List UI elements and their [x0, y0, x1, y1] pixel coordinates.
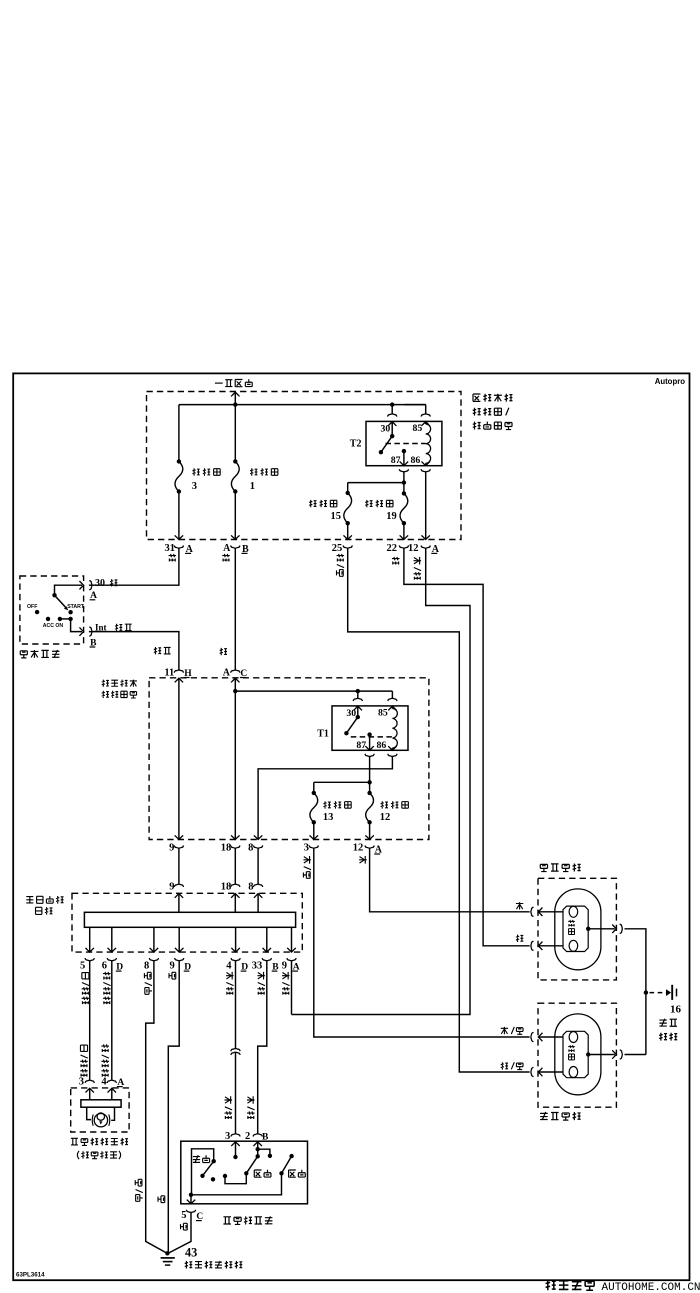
- wire label 白/玫红 lower: [80, 1045, 87, 1051]
- svg-text:5: 5: [181, 1210, 186, 1221]
- wire label 灰/红 lower: [247, 1096, 255, 1104]
- wire label 灰/黑 at left headlight: [501, 1027, 508, 1034]
- dimmer spare contact: [211, 1177, 215, 1181]
- cup terminal 9: [174, 846, 183, 849]
- svg-text:1: 1: [250, 481, 255, 492]
- svg-text:30: 30: [95, 578, 105, 589]
- svg-text:12: 12: [380, 812, 391, 823]
- svg-text:16: 16: [670, 1004, 682, 1016]
- wire low beam U-link: [225, 1173, 246, 1183]
- pin arrow T1 85: [388, 706, 397, 710]
- wire to fuse 1: [234, 405, 236, 462]
- wire bus bar to exit: [89, 927, 91, 952]
- wire fuse13 to terminal 3: [313, 822, 315, 839]
- svg-text:A: A: [223, 543, 231, 554]
- pin arrow terminal 31: [175, 535, 184, 539]
- wire label 绿 (22): [392, 557, 400, 565]
- low beam upper contact: [256, 1154, 260, 1158]
- wire entry2 to low filament: [538, 945, 563, 947]
- pin arrow bus exit: [231, 948, 240, 952]
- fuse 保险丝19: [400, 493, 408, 523]
- svg-text:25: 25: [332, 543, 343, 554]
- wire junction to fuse15: [348, 482, 404, 484]
- U-link contact dot: [223, 1174, 227, 1178]
- ignition lever with arrowhead: [55, 595, 67, 608]
- svg-text:87: 87: [356, 740, 366, 751]
- wire deep blue through box 11H to 9: [178, 678, 180, 839]
- svg-text:9: 9: [282, 961, 287, 972]
- svg-text:T2: T2: [350, 438, 362, 449]
- svg-text:86: 86: [377, 740, 387, 751]
- wire down to fuse15: [347, 483, 349, 493]
- wire red AB down to instrument box A: [234, 548, 236, 670]
- node: battery feed 一直通电: [215, 382, 223, 384]
- wire 灰/黑 terminal 3 to left headlight entry1: [314, 848, 530, 1037]
- wire T1 87 down: [369, 757, 371, 783]
- label 仪表板下: [102, 680, 109, 687]
- svg-text:30: 30: [381, 423, 391, 434]
- cup T1 pin30: [353, 698, 362, 701]
- instrument panel fuse box 仪表板下保险丝盒 (dashed): [149, 678, 429, 840]
- label 发动机舱保险丝/继电器盒: [473, 394, 480, 401]
- cup terminal 31A: [174, 546, 183, 549]
- wire fuse3 to terminal 31: [178, 492, 180, 540]
- svg-text:9: 9: [170, 961, 175, 972]
- svg-text:12: 12: [353, 843, 364, 854]
- pin arrow bus entry 8: [254, 894, 263, 898]
- pin arrow terminal 8 exit: [254, 835, 263, 839]
- low beam lever 近光: [246, 1156, 257, 1173]
- pin arrow A-C entry: [231, 678, 240, 682]
- cup left headlight entry1: [531, 1032, 534, 1041]
- page frame border: [13, 373, 689, 1280]
- pin arrow 11H entry: [175, 678, 184, 682]
- T2 switch contact: [379, 450, 383, 454]
- wire bus bar to exit: [291, 927, 293, 952]
- cup left headlight entry2: [531, 1067, 534, 1076]
- wire label 黑 (5C): [181, 1223, 188, 1230]
- pin arrow bus exit: [85, 948, 94, 952]
- cup terminal 18: [231, 846, 240, 849]
- cup bus exit: [85, 958, 94, 961]
- cup T2 86: [421, 469, 430, 472]
- label 前照灯指示灯: [71, 1138, 78, 1145]
- cup terminal 11H: [174, 670, 183, 673]
- svg-text:ON: ON: [55, 623, 63, 629]
- position dot ON: [58, 617, 62, 621]
- wire bus bar to exit: [178, 927, 180, 952]
- headlight indicator box (dashed): [71, 1088, 129, 1132]
- junction A-C to relay feed: [233, 689, 237, 693]
- pin arrow T1 86 exit: [388, 746, 397, 750]
- headlight switch box 前照灯开关: [181, 1141, 308, 1204]
- wire label 深蓝: [115, 624, 122, 631]
- wire 18 to body computer bus: [234, 848, 236, 884]
- wire right headlight ground to junction: [625, 929, 646, 1055]
- wire 绿/黑 from 25 to left headlight low beam: [348, 548, 530, 1072]
- label 变光: [193, 1155, 200, 1163]
- T2 pin87 contact dot: [402, 449, 406, 453]
- cup T2 pin30: [388, 414, 397, 417]
- T2 switch pivot: [390, 434, 394, 438]
- svg-text:85: 85: [413, 423, 423, 434]
- svg-text:4: 4: [101, 1077, 107, 1088]
- indicator lamp bulb: [92, 1114, 93, 1125]
- T1 pin87 contact dot: [367, 732, 371, 736]
- cup bus entry 9: [174, 884, 183, 887]
- label 左前照灯: [540, 1112, 548, 1120]
- svg-text:8: 8: [248, 843, 253, 854]
- label 点火开关: [20, 651, 27, 658]
- junction T1 pin30 branch: [356, 689, 360, 693]
- svg-text:8: 8: [248, 881, 253, 892]
- wire 灰/红 9A down to junction with 12A feed: [291, 961, 293, 1015]
- wire bus corner to T2 pin85: [425, 405, 427, 414]
- wire label 绿/黑 (25): [337, 554, 345, 562]
- pin arrow terminal 22: [400, 535, 409, 539]
- svg-text:30: 30: [346, 708, 356, 719]
- svg-text:3: 3: [192, 481, 197, 492]
- svg-text:9: 9: [169, 843, 174, 854]
- svg-text:31: 31: [165, 543, 176, 554]
- svg-text:9: 9: [169, 881, 174, 892]
- svg-text:11: 11: [164, 668, 174, 679]
- junction 87 to fuses 13/12: [367, 780, 371, 784]
- T1 switch contact: [344, 731, 348, 735]
- svg-text:START: START: [67, 604, 85, 610]
- cup bus exit: [175, 958, 184, 961]
- wire to T1 pin85: [391, 691, 393, 698]
- cup bus exit: [149, 958, 158, 961]
- cup T1 pin85: [388, 698, 397, 701]
- svg-text:AUTOHOME.COM.CN: AUTOHOME.COM.CN: [602, 1282, 700, 1293]
- wire red 31A to ignition switch 30: [89, 548, 179, 585]
- wire 深蓝 Int to instrument 11H: [89, 632, 179, 670]
- label 保险丝盒: [102, 691, 109, 698]
- wire label 灰/红 (12A): [414, 557, 422, 565]
- wire 棕/玫红 6D to indicator 4A: [111, 961, 113, 1080]
- wire feed to T1 30/85: [235, 690, 392, 692]
- pin arrow T1 87 exit: [365, 746, 374, 750]
- fuse 保险丝12: [366, 793, 374, 822]
- wire label 灰/红 (33B): [257, 972, 265, 980]
- wire ON to Int contact: [60, 618, 71, 620]
- cup indicator 4A: [107, 1080, 116, 1083]
- svg-text:43: 43: [185, 1245, 197, 1259]
- pin arrow indicator 4A: [108, 1088, 117, 1092]
- wire T1 pin87 to box edge: [369, 735, 371, 751]
- ignition contact Int: [68, 617, 72, 621]
- wire label 灰/红 (9A): [282, 972, 290, 980]
- cup T1 87: [365, 754, 374, 757]
- cup T2 pin85: [421, 414, 430, 417]
- svg-text:3: 3: [79, 1077, 84, 1088]
- label 远光: [289, 1170, 296, 1177]
- watermark 汽车之家: [546, 1280, 556, 1290]
- wire label 白/玫红: [82, 973, 89, 979]
- svg-text:15: 15: [331, 511, 342, 522]
- wire 黑 9D to ground: [168, 961, 179, 1252]
- pin arrow right headlight entry2: [538, 942, 542, 951]
- cup right headlight exit: [620, 924, 623, 933]
- wire bus bar to exit: [111, 927, 113, 952]
- cup terminal 12: [365, 846, 374, 849]
- cup bus entry 18: [231, 884, 240, 887]
- cup T1 86: [388, 754, 397, 757]
- right headlight bulb 灯丝: [555, 889, 601, 970]
- wire bulb common to box edge: [588, 928, 615, 930]
- svg-text:8: 8: [144, 961, 149, 972]
- wire label 棕/玫红 lower: [101, 1044, 109, 1052]
- switch 3 contact: [233, 1155, 237, 1159]
- wire 灰/红 4D upper: [235, 961, 237, 1048]
- fuse 保险丝1: [231, 461, 239, 491]
- wire 灰/红 from 12A down and left to bus 9A wire: [292, 548, 471, 1014]
- svg-text:12: 12: [408, 543, 419, 554]
- pin arrow bus exit: [175, 948, 184, 952]
- svg-text:87: 87: [391, 455, 401, 466]
- wire label 红 at A-C: [220, 648, 227, 655]
- svg-text:3: 3: [225, 1131, 230, 1142]
- wire T2 86 to terminal 12: [425, 472, 427, 540]
- pin arrow terminal 12: [421, 535, 430, 539]
- wire label 黑: [169, 972, 176, 979]
- wire 白/玫红 5 to indicator 3: [89, 961, 91, 1080]
- wire 8 to body computer bus: [257, 848, 259, 884]
- wire dimmer L-link to ground rail: [192, 1149, 214, 1195]
- pin arrow terminal 9 exit: [175, 835, 184, 839]
- wire 黑/紫 8 to ground: [146, 961, 167, 1253]
- cup bus entry 8: [253, 884, 262, 887]
- wire high beam to ground rail: [191, 1173, 282, 1195]
- pin arrow switch 3: [231, 1142, 240, 1146]
- junction bus/relay 30: [390, 402, 394, 406]
- wire bus bar to exit: [235, 927, 237, 952]
- wire label 灰/红 (4D): [226, 972, 234, 980]
- cup terminal 25: [343, 546, 352, 549]
- cup indicator 3: [85, 1080, 94, 1083]
- fuse 保险丝13: [310, 793, 318, 822]
- spare contact dot: [268, 1154, 272, 1158]
- pin arrow left headlight exit: [612, 1050, 616, 1059]
- junction 2B branch: [256, 1147, 260, 1151]
- ground junction dot: [165, 1251, 169, 1255]
- wire down to fuse13: [313, 782, 315, 793]
- wire label 黑/紫 lower: [135, 1179, 142, 1186]
- wire left bulb common to box edge: [588, 1054, 615, 1056]
- wire 灰/绿 4D lower to switch 3: [235, 1053, 237, 1134]
- right headlight box 右前照灯 (dashed): [538, 878, 616, 980]
- wire fuse19 to terminal 22: [403, 523, 405, 539]
- svg-text:22: 22: [387, 543, 398, 554]
- wire label 红: [110, 579, 117, 586]
- relay T2 coil: [426, 424, 431, 463]
- cup bus exit: [231, 958, 240, 961]
- pin arrow indicator 3: [85, 1088, 94, 1092]
- svg-text:85: 85: [378, 708, 388, 719]
- wire bus bar to exit: [266, 927, 268, 952]
- wire bus to T2 pin30: [391, 405, 393, 414]
- svg-text:Autopro: Autopro: [655, 377, 686, 386]
- dimmer lower contact: [200, 1174, 204, 1178]
- pin arrow T2 86 exit: [421, 462, 430, 466]
- cup bus exit: [107, 958, 116, 961]
- T1 switch pivot: [356, 715, 360, 719]
- wire bar to lamp right: [111, 1107, 114, 1120]
- high beam lower contact: [279, 1171, 283, 1175]
- cup terminal 22: [399, 546, 408, 549]
- svg-text:4: 4: [226, 961, 232, 972]
- ignition internal wire to 30 exit: [55, 585, 83, 595]
- inline connector lower half (4D): [231, 1052, 240, 1055]
- wire label 红 (AB): [222, 554, 230, 562]
- wire label 绿/黑 at left headlight: [501, 1062, 508, 1069]
- ground symbol 仪表板左接地: [161, 1257, 175, 1259]
- wire: top bus inside engine box: [179, 404, 426, 406]
- engine compartment fuse/relay box (dashed): [147, 392, 462, 540]
- dimmer upper contact: [212, 1159, 216, 1163]
- fuse 保险丝3: [175, 461, 183, 491]
- high beam lever 远光: [282, 1156, 292, 1173]
- T2 switch lever: [381, 436, 392, 452]
- wire label 灰 at right headlight: [516, 902, 523, 909]
- cup ignition 30: [89, 581, 92, 590]
- label 近光: [254, 1170, 261, 1177]
- wire T2 87 down: [403, 472, 405, 483]
- wire label 灰 (terminal 12A): [359, 856, 367, 864]
- pin arrow T2 87 exit: [400, 462, 409, 466]
- junction ground rail to 5C: [189, 1193, 193, 1197]
- cup switch 2B: [253, 1134, 262, 1137]
- relay T1 coil: [392, 709, 397, 749]
- cup switch 5C: [186, 1210, 195, 1213]
- left headlight bulb 灯丝: [555, 1014, 601, 1095]
- wire fuse15 to terminal 25: [347, 523, 349, 539]
- wire label 红 (31A): [169, 554, 177, 562]
- fuse 保险丝15: [344, 493, 352, 523]
- wire to T1 pin30: [357, 691, 359, 698]
- pin arrow terminal 12 exit: [365, 835, 374, 839]
- pin arrow ignition Int exit: [80, 627, 84, 636]
- left headlight box 左前照灯 (dashed): [538, 1003, 616, 1107]
- pin arrow bus entry 18: [231, 894, 240, 898]
- dashed link to chassis ground: [650, 992, 667, 994]
- cup right headlight entry2: [531, 941, 534, 950]
- position dot OFF: [35, 610, 39, 614]
- wire label 棕/玫红: [103, 972, 111, 980]
- cup bus exit: [287, 958, 296, 961]
- svg-text:3: 3: [304, 843, 309, 854]
- label 车身电脑: [26, 897, 33, 903]
- pin arrow right headlight exit: [612, 925, 616, 934]
- wire label 灰/黑 (terminal 3): [303, 856, 311, 864]
- label 仪表板左接地: [185, 1261, 193, 1269]
- pin arrow ignition 30 exit: [80, 581, 84, 590]
- inline connector upper half (4D): [231, 1049, 240, 1052]
- ignition switch box 点火开关 (dashed): [20, 576, 84, 644]
- wire 5C to ground: [169, 1213, 191, 1253]
- junction headlight grounds: [644, 990, 648, 994]
- ignition contact 30 feed: [52, 593, 56, 597]
- cup ignition Int: [89, 627, 92, 636]
- chassis ground symbol 左前接地: [666, 989, 671, 996]
- pin arrow bus exit: [150, 948, 159, 952]
- pin arrow terminal 25: [343, 535, 352, 539]
- T2 actuation dashed link: [386, 443, 426, 445]
- wire 2B branch to spare contact: [258, 1149, 270, 1156]
- pin arrow right headlight entry1: [538, 908, 542, 917]
- pin arrow into engine fuse box from 一直通电: [231, 392, 240, 396]
- cup terminal A-B: [231, 546, 240, 549]
- svg-text:5: 5: [80, 961, 85, 972]
- pin arrow T1 30: [354, 706, 363, 710]
- cup left headlight exit: [620, 1050, 623, 1059]
- pin arrow bus exit: [287, 948, 296, 952]
- cup right headlight entry1: [531, 907, 534, 916]
- wire T2 pin30 internal: [391, 422, 393, 436]
- dimmer lever 变光: [203, 1161, 214, 1176]
- pin arrow T2 85: [421, 422, 430, 426]
- svg-text:86: 86: [411, 455, 421, 466]
- cup T2 87: [399, 469, 408, 472]
- pin arrow bus exit: [263, 948, 272, 952]
- pin arrow terminal A: [231, 535, 240, 539]
- label 右前照灯: [540, 864, 547, 871]
- wire T1 pin30 internal: [357, 706, 359, 717]
- wire label 黑 lower: [158, 1196, 165, 1203]
- bulb common junction: [586, 927, 590, 931]
- ignition internal wire to Int exit: [71, 619, 82, 632]
- wire red A-C through box to 18: [234, 678, 236, 839]
- svg-text:A: A: [223, 668, 231, 679]
- svg-text:T1: T1: [317, 729, 329, 740]
- wire 9 to body computer bus: [178, 848, 180, 884]
- pin arrow T2 30: [388, 422, 397, 426]
- T1 actuation dashed link: [351, 736, 393, 738]
- pin arrow bus exit: [108, 948, 117, 952]
- cup terminal A-C: [231, 670, 240, 673]
- pin arrow switch 5C exit: [187, 1200, 196, 1204]
- pin arrow switch 2B: [253, 1142, 262, 1146]
- indicator connector bar: [81, 1100, 121, 1107]
- wire junction to fuse13: [314, 781, 370, 783]
- wire label 黑/紫: [144, 972, 151, 979]
- pin arrow terminal 3 exit: [310, 835, 319, 839]
- cup terminal 3: [309, 846, 318, 849]
- pin arrow terminal 18 exit: [231, 835, 240, 839]
- label 灯丝 left bulb: [568, 1045, 575, 1052]
- svg-text:18: 18: [221, 881, 232, 892]
- wire T2 pin87 to box edge: [403, 451, 405, 466]
- label 接地: [659, 1033, 667, 1041]
- position dot ACC: [46, 617, 50, 621]
- wire entry1 to high filament: [538, 911, 563, 913]
- wire to fuse19: [403, 483, 405, 494]
- wire 灰 terminal 12A to right headlight entry1: [370, 848, 530, 912]
- wire T1 86 to terminal 8: [258, 757, 392, 840]
- cup bus exit: [262, 958, 271, 961]
- pin arrow bus entry 9: [175, 894, 184, 898]
- high beam upper contact: [289, 1154, 293, 1158]
- T1 switch lever: [346, 717, 357, 733]
- cup switch 3: [231, 1134, 240, 1137]
- svg-text:19: 19: [386, 511, 397, 522]
- cup terminal 12A: [421, 546, 430, 549]
- wire to fuse 3: [178, 405, 180, 462]
- wire bar to lamp left: [87, 1107, 91, 1119]
- wire label 深蓝 at 11H: [154, 647, 161, 654]
- wire: feed drop to bus: [234, 392, 236, 404]
